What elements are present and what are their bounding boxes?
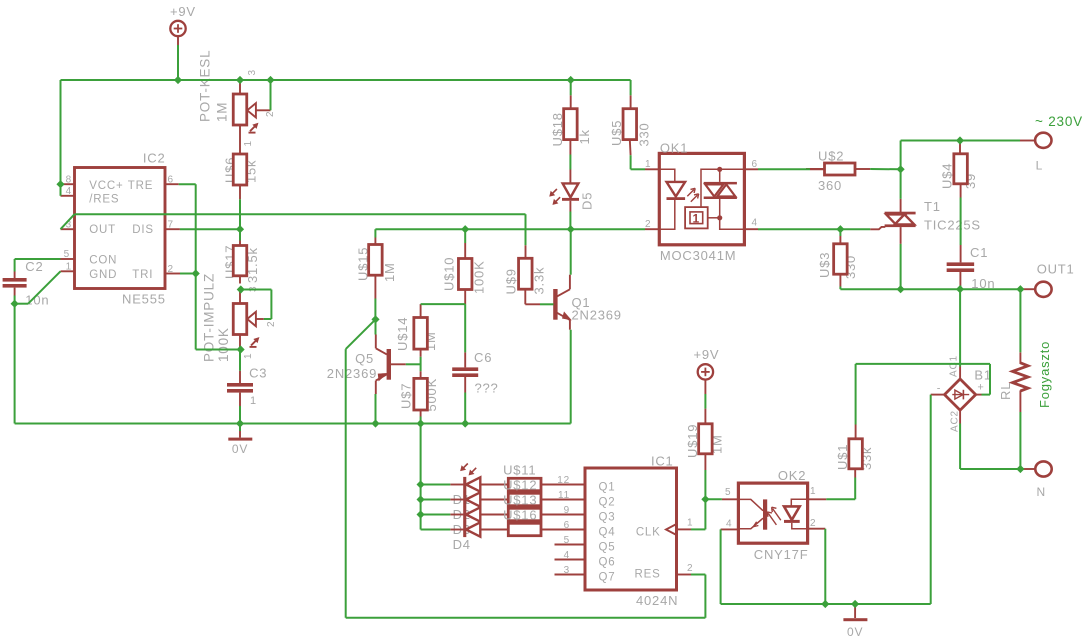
- junction rail U$18: [567, 76, 575, 84]
- wire +9V to rail: [177, 45, 179, 80]
- wire RES net up: [704, 575, 706, 618]
- svg-text:RL: RL: [998, 382, 1013, 400]
- wire rail to IC2 VCC: [60, 80, 62, 196]
- svg-text:4: 4: [752, 218, 758, 229]
- svg-text:2: 2: [687, 563, 693, 574]
- wire OK2 pin1 to U$1: [826, 498, 855, 500]
- wire RES stub: [691, 574, 705, 576]
- wire DIS pin7 to node: [180, 228, 240, 230]
- resistor RL Fogyaszto: [998, 341, 1052, 412]
- svg-text:U$10: U$10: [442, 257, 457, 291]
- svg-text:AC2: AC2: [950, 410, 961, 432]
- svg-text:U$9: U$9: [504, 268, 519, 294]
- junction OUT1 C1: [956, 285, 964, 293]
- svg-text:U$4: U$4: [940, 163, 955, 189]
- junction 0V Q5: [371, 419, 379, 427]
- wire CLK node down: [704, 499, 706, 529]
- svg-text:5: 5: [725, 487, 731, 498]
- wire B1 AC1 up: [959, 289, 961, 366]
- wire TRE-TRI to C3 node: [196, 349, 241, 351]
- resistor U$1 33k: [835, 425, 874, 478]
- svg-text:NE555: NE555: [122, 292, 166, 307]
- svg-text:OUT: OUT: [89, 224, 116, 236]
- wire POT-IMPULZ loop top: [241, 289, 272, 291]
- junction net229 U$10: [461, 225, 469, 233]
- wire LED D3 anode: [421, 514, 451, 516]
- wire net 229 mid: [375, 228, 570, 230]
- wire node to U$17 top: [239, 229, 241, 240]
- trimmer POT-IMPULZ 100K: [202, 273, 277, 362]
- LED D2: [450, 492, 480, 522]
- resistor U$16: [480, 523, 585, 535]
- wire U$7 bottom: [420, 417, 422, 424]
- wire OUT net down to U$9: [525, 214, 527, 245]
- resistor U$5 330: [609, 95, 652, 155]
- junction bottom OK2 pin2: [821, 600, 829, 608]
- wire U$4 bottom to C1: [960, 198, 962, 246]
- svg-text:Q6: Q6: [599, 557, 616, 569]
- svg-text:Q7: Q7: [599, 572, 616, 584]
- wire rail to U$18: [570, 80, 572, 95]
- svg-text:D5: D5: [580, 192, 595, 210]
- svg-text:/RES: /RES: [89, 193, 119, 205]
- wire U$1 bottom: [854, 478, 856, 500]
- svg-text:3.3k: 3.3k: [532, 267, 547, 295]
- junction LED D2: [417, 495, 425, 503]
- svg-text:C2: C2: [25, 259, 43, 274]
- wire D5 cathode: [569, 212, 571, 230]
- wire OUT pin3 diagonal: [61, 214, 75, 229]
- svg-text:TRI: TRI: [132, 269, 153, 281]
- resistor U$4 39: [940, 141, 979, 198]
- wire TRI stub join: [180, 273, 196, 275]
- resistor U$14 1M: [395, 304, 438, 357]
- wire Q5 collector: [375, 319, 377, 334]
- supply +9V (U$19): [694, 347, 720, 394]
- wire U$15 bottom: [374, 299, 376, 320]
- svg-text:U$16: U$16: [503, 507, 537, 522]
- wire POT-IMPULZ loop side: [270, 290, 272, 320]
- svg-text:1: 1: [250, 395, 257, 407]
- resistor U$6 15k: [223, 154, 259, 199]
- svg-text:1: 1: [243, 140, 254, 146]
- wire OUT1 net: [840, 288, 1020, 290]
- wire U$5 bottom: [630, 155, 632, 169]
- svg-text:VCC+: VCC+: [89, 180, 123, 192]
- junction Q5 collector: [371, 315, 379, 323]
- svg-text:1: 1: [243, 353, 254, 359]
- svg-text:L: L: [1036, 159, 1043, 173]
- svg-text:C3: C3: [249, 366, 267, 381]
- resistor U$3 330: [817, 236, 858, 287]
- wire C2 bottom: [14, 296, 16, 304]
- junction rail +9V: [174, 76, 182, 84]
- LED D3: [450, 507, 480, 537]
- wire Q1 emitter to 0V: [570, 330, 572, 424]
- wire N line: [960, 468, 1020, 470]
- resistor U$12: [480, 493, 585, 505]
- wire B1 minus down: [930, 395, 932, 604]
- wire U$10 bottom to U$14: [421, 303, 466, 305]
- svg-text:POT-KESL: POT-KESL: [198, 50, 213, 122]
- svg-text:T1: T1: [924, 199, 941, 214]
- junction bottom ground: [851, 600, 859, 608]
- ground 0V (right): [843, 604, 867, 639]
- svg-text:C6: C6: [474, 350, 492, 365]
- resistor U$19 1M: [685, 409, 725, 470]
- wire U$10 top: [464, 229, 466, 243]
- wire rail corner to U$5: [630, 80, 632, 95]
- svg-text:4: 4: [726, 519, 732, 530]
- triac T1 TIC225S: [870, 199, 981, 244]
- wire POT-IMPULZ wiper: [264, 318, 272, 320]
- wire U$14-U$7 link: [420, 357, 422, 371]
- resistor U$17 31.5k: [223, 241, 261, 284]
- svg-text:U$12: U$12: [503, 477, 537, 492]
- svg-text:AC1: AC1: [949, 355, 960, 377]
- IC binary counter IC1 4024N: [541, 454, 693, 609]
- wire U$1 to B1 plus: [856, 363, 990, 365]
- junction LED D1: [417, 480, 425, 488]
- svg-text:Q4: Q4: [599, 527, 616, 539]
- wire node to C6: [464, 304, 466, 352]
- svg-text:100K: 100K: [216, 327, 231, 362]
- wire U$18 to D5: [569, 155, 571, 170]
- wire LED D2 anode: [421, 499, 451, 501]
- svg-text:2N2369: 2N2369: [327, 366, 377, 381]
- svg-text:2: 2: [810, 518, 816, 529]
- junction N RL: [1016, 465, 1024, 473]
- junction OUT1 T1: [897, 285, 905, 293]
- junction U$17 POT-IMPULZ: [237, 285, 245, 293]
- svg-text:D4: D4: [453, 537, 471, 552]
- svg-text:0V: 0V: [232, 442, 248, 456]
- wire CON pin5 to C2: [15, 258, 61, 260]
- svg-text:RES: RES: [635, 568, 661, 580]
- wire gate line: [840, 228, 870, 230]
- capacitor C2 10n: [3, 259, 50, 307]
- junction IC2 VCC: [56, 180, 64, 188]
- LED D4: [450, 522, 480, 552]
- wire T1 MT1 down: [900, 244, 902, 289]
- capacitor C1 10n: [947, 245, 996, 291]
- svg-text:OK1: OK1: [660, 141, 688, 156]
- junction net229 D5: [567, 225, 575, 233]
- svg-text:1M: 1M: [382, 262, 397, 282]
- wire Q1 base: [540, 303, 554, 305]
- svg-text:OK2: OK2: [778, 468, 806, 483]
- svg-text:U$2: U$2: [818, 149, 844, 164]
- svg-text:2N2369: 2N2369: [572, 308, 622, 323]
- wire U$1 top: [855, 364, 857, 425]
- svg-text:U$3: U$3: [817, 252, 832, 278]
- resistor U$9 3.3k: [504, 245, 547, 304]
- wire rail to POT-KESL wiper: [270, 80, 272, 110]
- wire Q5 emitter: [375, 394, 377, 424]
- svg-text:1: 1: [693, 212, 700, 226]
- wire OK2 pin4 down: [720, 529, 722, 604]
- capacitor C3: [227, 366, 267, 408]
- svg-text:Q1: Q1: [599, 482, 616, 494]
- optocoupler OK2 CNY17F: [721, 468, 827, 562]
- wire Q5 collector long vertical: [345, 349, 347, 618]
- wire CLK stub: [691, 528, 705, 530]
- resistor U$10 100K: [442, 243, 487, 304]
- svg-text:TRE: TRE: [128, 180, 153, 192]
- wire TRE to TRI (pin6): [179, 183, 196, 185]
- junction TRE-TRI: [192, 269, 200, 277]
- svg-text:4024N: 4024N: [636, 593, 678, 608]
- svg-text:+9V: +9V: [694, 347, 720, 362]
- wire GND pin1 jog: [15, 303, 29, 305]
- resistor U$7 500K: [399, 371, 440, 416]
- svg-text:1k: 1k: [577, 129, 592, 144]
- resistor U$15 1M: [356, 238, 398, 299]
- svg-text:TIC225S: TIC225S: [924, 218, 981, 233]
- svg-text:U$11: U$11: [503, 462, 536, 477]
- svg-text:GND: GND: [89, 269, 117, 281]
- supply +9V (top): [170, 4, 196, 45]
- svg-text:100K: 100K: [472, 260, 487, 294]
- optotriac OK1 MOC3041M: [645, 141, 758, 264]
- svg-text:U$13: U$13: [503, 492, 537, 507]
- wire GND pin1 diagonal: [28, 271, 60, 303]
- wire +9V rail: [61, 79, 631, 81]
- transistor Q1 2N2369: [553, 275, 622, 330]
- wire OK2 pin2 down: [824, 529, 826, 604]
- svg-text:2: 2: [265, 111, 276, 117]
- svg-text:IC1: IC1: [651, 454, 674, 469]
- wire Q5 base: [406, 363, 421, 365]
- wire OK1 pin6 to U$2: [758, 168, 810, 170]
- resistor U$2 360: [806, 149, 870, 193]
- svg-text:MOC3041M: MOC3041M: [660, 248, 736, 263]
- LED D1: [450, 464, 480, 508]
- wire B1 plus stub: [982, 394, 991, 396]
- svg-text:1: 1: [687, 518, 693, 529]
- ground 0V (left): [228, 431, 252, 456]
- svg-text:???: ???: [475, 381, 499, 396]
- wire +9V to U$19: [704, 394, 706, 409]
- wire U$19 bottom: [704, 470, 706, 499]
- wire bottom net right: [721, 603, 931, 605]
- svg-text:Q5: Q5: [355, 351, 374, 366]
- wire B1 AC2 down: [959, 424, 961, 470]
- junction 0V C3: [236, 419, 244, 427]
- wire OK1 pin4 to U$3: [758, 228, 840, 230]
- svg-text:360: 360: [818, 178, 842, 193]
- svg-text:U$7: U$7: [399, 383, 414, 409]
- svg-text:1: 1: [810, 486, 816, 497]
- wire U$2 right: [870, 168, 900, 170]
- terminal L ~230V: [1020, 114, 1083, 173]
- wire RL top: [1019, 289, 1021, 352]
- wire CLK node to OK2 pin5: [705, 498, 722, 500]
- wire U$6 bottom: [239, 199, 241, 229]
- capacitor C6 ???: [452, 350, 498, 396]
- svg-text:N: N: [1037, 485, 1046, 499]
- wire LED D1 anode: [421, 484, 451, 486]
- svg-text:1M: 1M: [215, 102, 230, 122]
- terminal N: [1020, 461, 1051, 499]
- wire LED feed vertical: [420, 424, 422, 530]
- wire U$5 to OK1 pin1: [631, 168, 645, 170]
- junction OUT1 RL: [1016, 285, 1024, 293]
- wire U$2 node to T1 MT2: [900, 169, 902, 199]
- junction CLK node: [701, 495, 709, 503]
- svg-text:CNY17F: CNY17F: [754, 547, 809, 562]
- wire net 229 left end to U$15: [374, 229, 376, 237]
- wire net 229 to OK1 pin2: [571, 228, 645, 230]
- svg-text:U$14: U$14: [395, 317, 410, 351]
- junction LED D3: [417, 510, 425, 518]
- wire C2 top: [14, 259, 16, 272]
- resistor U$13: [480, 508, 585, 520]
- wire L down to T1: [900, 141, 902, 170]
- resistor U$18 1k: [550, 95, 592, 154]
- junction 0V C6: [461, 419, 469, 427]
- wire LED D4 anode: [421, 529, 451, 531]
- wire C3 to 0V: [239, 406, 241, 424]
- svg-text:Q2: Q2: [599, 497, 616, 509]
- junction rail wiper: [266, 76, 274, 84]
- svg-text:CLK: CLK: [636, 526, 661, 538]
- wire RL bottom: [1019, 412, 1021, 469]
- svg-text:~ 230V: ~ 230V: [1035, 114, 1083, 129]
- svg-text:Q5: Q5: [599, 542, 616, 554]
- svg-text:+9V: +9V: [170, 4, 196, 19]
- wire C3 top: [239, 350, 241, 371]
- svg-text:330: 330: [637, 122, 652, 146]
- bridge rectifier B1: [931, 355, 992, 432]
- svg-text:-: -: [937, 383, 941, 395]
- junction gate U$3: [836, 225, 844, 233]
- wire C1 bottom: [959, 286, 961, 290]
- trimmer POT-KESL 1M: [198, 50, 276, 154]
- wire 0V stub: [239, 424, 241, 432]
- wire C2 node down: [14, 304, 16, 424]
- svg-text:IC2: IC2: [143, 151, 166, 166]
- wire Q5 collector node diag: [346, 319, 376, 349]
- wire RES net bottom: [346, 617, 706, 619]
- svg-text:DIS: DIS: [132, 224, 154, 236]
- junction 0V U$7: [417, 419, 425, 427]
- junction L U$4: [956, 136, 964, 144]
- LED D5: [550, 170, 595, 212]
- terminal OUT1: [1020, 262, 1074, 297]
- junction DIS node: [236, 225, 244, 233]
- resistor U$11: [480, 478, 585, 490]
- svg-text:CON: CON: [89, 255, 117, 267]
- wire Q1 collector: [570, 229, 572, 275]
- svg-text:OUT1: OUT1: [1037, 262, 1075, 277]
- wire C6 bottom: [464, 393, 466, 424]
- svg-text:3: 3: [247, 69, 258, 75]
- wire U$3 bottom: [839, 287, 841, 290]
- wire TRE-TRI vertical: [195, 184, 197, 349]
- svg-text:+: +: [977, 382, 984, 394]
- svg-text:2: 2: [266, 321, 277, 327]
- wire L net: [901, 140, 1020, 142]
- junction rail POT-KESL: [236, 76, 244, 84]
- IC 555 timer IC2: [61, 151, 181, 307]
- wire B1 plus down: [989, 364, 991, 395]
- wire 0V net bottom: [15, 423, 571, 425]
- junction U$2 MT2: [897, 165, 905, 173]
- junction POT-IMPULZ C3: [237, 345, 245, 353]
- svg-text:Q3: Q3: [599, 512, 616, 524]
- svg-text:0V: 0V: [847, 625, 863, 639]
- svg-text:C1: C1: [970, 245, 988, 260]
- svg-text:Fogyaszto: Fogyaszto: [1037, 341, 1052, 408]
- transistor Q5 2N2369: [327, 335, 406, 395]
- wire OUT net horizontal: [75, 213, 526, 215]
- junction C2 ground: [11, 300, 19, 308]
- wire U$3 top: [839, 229, 841, 236]
